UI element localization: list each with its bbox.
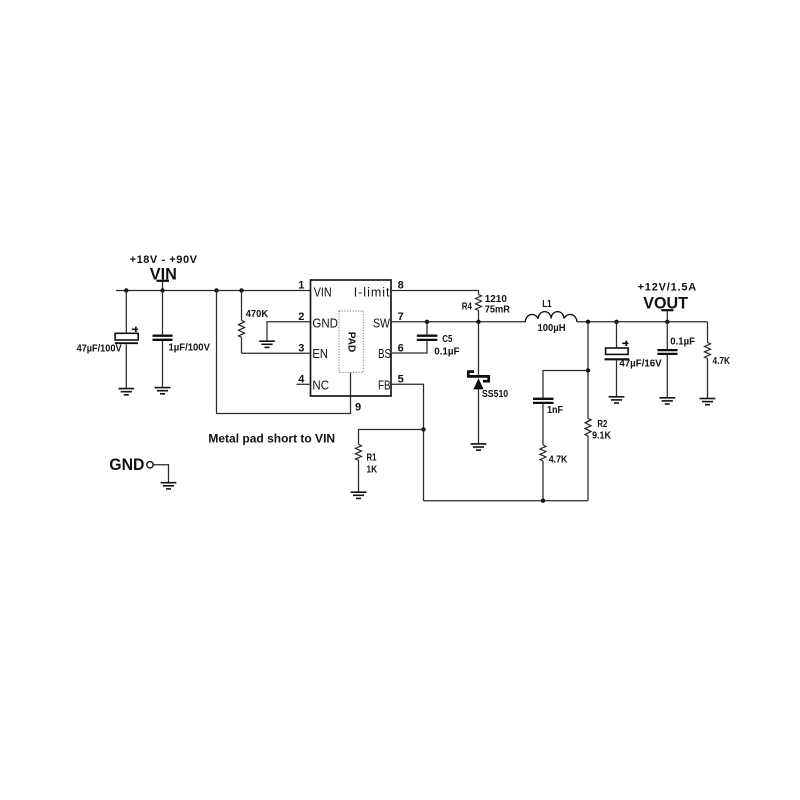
- svg-text:47µF/100V: 47µF/100V: [77, 343, 123, 354]
- resistor R3 470K: [239, 291, 269, 354]
- svg-text:Metal pad short to VIN: Metal pad short to VIN: [208, 432, 335, 446]
- svg-text:1: 1: [298, 280, 304, 292]
- svg-text:3: 3: [298, 342, 304, 354]
- node R6 bottom: [541, 499, 545, 503]
- pad dashed box: [339, 311, 363, 372]
- ground terminal: [161, 483, 177, 489]
- svg-text:1K: 1K: [367, 464, 378, 475]
- svg-text:NC: NC: [312, 378, 329, 393]
- resistor R2 9.1K: [585, 322, 611, 501]
- ground C4: [659, 398, 675, 404]
- resistor R4: [462, 294, 510, 322]
- node C1 on rail: [124, 288, 128, 292]
- capacitor C1 47uF/100V electrolytic: [77, 291, 139, 389]
- capacitor C4 0.1uF out: [657, 322, 695, 398]
- wire metal pad short to VIN: [217, 291, 351, 414]
- svg-text:+12V/1.5A: +12V/1.5A: [638, 281, 697, 293]
- inductor L1: [525, 298, 577, 334]
- ground C3: [609, 397, 625, 403]
- svg-text:0.1µF: 0.1µF: [434, 346, 459, 357]
- node C3: [614, 320, 618, 324]
- ground C1: [118, 389, 134, 395]
- svg-text:100µH: 100µH: [538, 323, 566, 334]
- wire NC stub pin4: [297, 383, 311, 385]
- svg-text:SW: SW: [373, 318, 390, 331]
- svg-text:VIN: VIN: [314, 286, 332, 300]
- svg-text:2: 2: [298, 311, 304, 323]
- svg-text:1µF/100V: 1µF/100V: [169, 342, 211, 353]
- node C5: [425, 320, 429, 324]
- svg-text:GND: GND: [312, 316, 338, 331]
- svg-text:L1: L1: [542, 298, 551, 309]
- node R3 on rail: [239, 288, 243, 292]
- svg-text:PAD: PAD: [346, 332, 357, 352]
- capacitor C5 0.1uF: [391, 322, 459, 358]
- svg-text:C5: C5: [442, 333, 452, 344]
- ground R1: [351, 492, 367, 498]
- node SW/R4/D1: [476, 320, 480, 324]
- diode D1 SS510 schottky: [468, 322, 508, 444]
- svg-text:EN: EN: [312, 346, 328, 361]
- svg-text:SS510: SS510: [482, 387, 508, 399]
- wire I-limit pin8 net: [391, 291, 479, 295]
- wire feedforward top: [543, 371, 588, 398]
- svg-text:1nF: 1nF: [547, 405, 563, 417]
- svg-text:470K: 470K: [246, 309, 268, 320]
- wire EN net: [242, 352, 311, 354]
- svg-text:GND: GND: [109, 455, 144, 474]
- svg-text:0.1µF: 0.1µF: [670, 336, 695, 347]
- wire FB bottom net: [424, 500, 589, 502]
- capacitor C6 1nF: [533, 399, 563, 445]
- terminal VOUT: [643, 294, 688, 322]
- node R2: [586, 320, 590, 324]
- wire VOUT rail: [577, 321, 708, 323]
- ground D1: [471, 444, 487, 450]
- svg-text:R4: R4: [462, 301, 472, 312]
- node pad-short on rail: [214, 288, 218, 292]
- wire VIN rail: [116, 290, 311, 292]
- capacitor C2 1uF/100V: [153, 291, 211, 388]
- svg-text:47µF/16V: 47µF/16V: [619, 358, 662, 369]
- svg-text:8: 8: [398, 280, 404, 292]
- svg-text:R1: R1: [367, 452, 377, 463]
- node R1 tap: [421, 427, 425, 431]
- resistor R6 4.7K feedforward: [540, 445, 568, 501]
- wire GND pin2 net: [267, 322, 311, 341]
- svg-text:R2: R2: [597, 418, 607, 429]
- svg-text:9: 9: [355, 402, 361, 414]
- ground pin2: [259, 341, 275, 347]
- terminal GND: [109, 455, 168, 482]
- svg-text:I-limit: I-limit: [354, 285, 391, 299]
- resistor R1 1K: [356, 430, 424, 493]
- capacitor C3 47uF/16V electrolytic: [605, 322, 663, 397]
- terminal VIN: [150, 264, 177, 290]
- svg-text:4.7K: 4.7K: [713, 355, 731, 366]
- resistor R5 4.7K output: [705, 322, 731, 399]
- svg-text:BS: BS: [378, 348, 391, 361]
- svg-text:9.1K: 9.1K: [592, 430, 611, 442]
- wire FB pin5 net: [391, 384, 424, 500]
- node feedforward tap: [586, 368, 590, 372]
- ground R5: [700, 399, 716, 405]
- svg-text:4.7K: 4.7K: [549, 454, 568, 466]
- wire SW rail: [391, 321, 526, 323]
- node VOUT/C4: [665, 320, 669, 324]
- svg-text:75mR: 75mR: [485, 304, 510, 315]
- node C2 on rail: [160, 288, 164, 292]
- op IC U1 box: [311, 280, 392, 396]
- svg-text:FB: FB: [378, 379, 390, 392]
- ground C2: [155, 388, 171, 394]
